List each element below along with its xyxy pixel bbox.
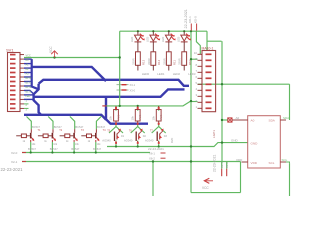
supply VCC arrow top — [49, 46, 58, 58]
svg-text:22-23-2021: 22-23-2021 — [1, 167, 24, 172]
pin CN-8 — [198, 65, 203, 67]
wire bus A line1 — [32, 67, 106, 81]
net stub X1-1 — [220, 162, 224, 177]
wire bus S trunk — [34, 84, 42, 115]
pad SV1-9 — [10, 89, 16, 91]
wire pin stub 3 — [24, 63, 32, 65]
wire feed vertical — [119, 31, 121, 106]
wire pin9 tap — [191, 58, 198, 60]
pin CN-9 — [198, 59, 203, 61]
wire top jog — [207, 40, 222, 42]
wire resistor stub 2 — [137, 106, 139, 111]
svg-text:22-23-2021: 22-23-2021 — [148, 147, 164, 151]
wire pin stub 4 — [24, 67, 32, 69]
pad CN-8 — [206, 65, 212, 67]
pad CN-2 — [206, 101, 212, 103]
resistor R12 — [147, 52, 165, 76]
pin SV1-10 — [20, 94, 24, 96]
svg-text:BLT2: BLT2 — [26, 86, 32, 89]
wire X1-1 drop — [221, 162, 223, 169]
svg-text:LED1: LED1 — [157, 72, 165, 76]
pad SV1-13 — [10, 107, 16, 109]
pin CN-7 — [198, 71, 203, 73]
svg-text:VCC: VCC — [26, 55, 31, 58]
wire collector riser T2 — [48, 117, 53, 130]
node x2-0 j3 — [73, 151, 75, 153]
svg-text:LED2: LED2 — [173, 72, 181, 76]
svg-text:X2-0: X2-0 — [11, 151, 18, 155]
node x2-1 cross — [190, 160, 192, 162]
wire pin stub 5 — [24, 72, 32, 74]
node VCC arrow junction — [53, 56, 55, 58]
svg-text:SV1: SV1 — [6, 48, 14, 53]
wire right vertical net — [221, 41, 223, 161]
IC U1 body — [248, 116, 281, 168]
wire GND rail — [107, 143, 248, 147]
wire gate stub 1 — [115, 124, 117, 127]
pin SV1-9 — [20, 89, 24, 91]
svg-text:R23: R23 — [159, 114, 163, 119]
svg-text:AO340: AO340 — [102, 139, 111, 143]
wire SDA vertical — [289, 84, 291, 120]
svg-text:LED: LED — [177, 37, 181, 42]
svg-text:BC547: BC547 — [28, 147, 36, 151]
svg-text:22-23-2021: 22-23-2021 — [213, 155, 217, 172]
wire base rail mid — [107, 101, 192, 106]
node gnd j3 — [158, 145, 160, 147]
pad CN-4 — [206, 89, 212, 91]
svg-text:A0: A0 — [236, 116, 240, 120]
wire collector riser T1 — [27, 117, 32, 130]
connector CN body — [202, 51, 216, 112]
pad SV1-4 — [10, 67, 16, 69]
IC pin A0 — [243, 119, 248, 121]
svg-text:VCC: VCC — [202, 186, 209, 190]
wire pin2 tap — [191, 101, 198, 103]
svg-text:AO340: AO340 — [145, 139, 154, 143]
pin SV1-13 — [20, 107, 24, 109]
svg-text:X6-1: X6-1 — [149, 151, 155, 155]
wire bus A line2 — [39, 80, 189, 86]
net stub X3-1 — [117, 83, 136, 87]
wire bus B middle horizontal — [34, 89, 185, 96]
svg-text:10k: 10k — [109, 115, 113, 120]
pad SV1-1 — [10, 54, 16, 56]
svg-text:BC547: BC547 — [50, 147, 58, 151]
pad SV1-12 — [10, 103, 16, 105]
transistor unit T3 — [60, 125, 85, 151]
svg-text:R22: R22 — [138, 114, 142, 119]
pad CN-5 — [206, 83, 212, 85]
node LED rail j4 — [183, 30, 185, 32]
pin CN-5 — [198, 83, 203, 85]
svg-text:SCL: SCL — [282, 158, 288, 162]
pin CN-3 — [198, 95, 203, 97]
net stub X6-2 — [149, 157, 166, 161]
transistor unit T4 — [81, 125, 106, 151]
svg-text:A0: A0 — [251, 118, 255, 122]
node vcc tap — [190, 100, 192, 102]
LED LED1 — [146, 31, 161, 52]
node gnd j4 — [190, 145, 192, 147]
svg-text:10: 10 — [194, 51, 198, 55]
pad SV1-5 — [10, 72, 16, 74]
svg-text:BLT1: BLT1 — [26, 82, 32, 85]
wire collector riser T4 — [96, 116, 101, 129]
net flag X2-0 — [11, 151, 26, 155]
wire resistor stub 1 — [115, 106, 117, 111]
node base rail j2 — [137, 105, 139, 107]
net flag X2-1 — [11, 160, 26, 164]
node a0 tap — [221, 119, 223, 121]
supply VCC arrow bottom — [202, 178, 213, 190]
wire A0 link — [222, 119, 228, 121]
svg-text:330R: 330R — [162, 58, 166, 65]
svg-text:330R: 330R — [131, 58, 135, 65]
wire SCL vertical — [289, 163, 291, 196]
jumper A0 box — [228, 118, 243, 122]
wire X1-2 drop — [226, 162, 228, 169]
IC pin VDD — [242, 161, 248, 163]
node x2-0 j1 — [30, 151, 32, 153]
svg-text:KD-1: KD-1 — [188, 16, 192, 23]
wire gate link 1 — [109, 127, 123, 134]
svg-text:SCL: SCL — [269, 161, 275, 165]
wire pin13 stub — [24, 107, 29, 109]
pin SV1-3 — [20, 63, 24, 65]
svg-text:BC547: BC547 — [54, 125, 62, 129]
svg-text:VDD: VDD — [251, 161, 258, 165]
pad SV1-8 — [10, 85, 16, 87]
svg-text:LGP1: LGP1 — [212, 130, 216, 138]
resistor R10 — [178, 52, 196, 76]
wire bus C lower-left horizontal — [24, 115, 106, 120]
svg-text:AO340: AO340 — [124, 139, 133, 143]
pad CN-1 — [206, 107, 212, 109]
wire emitter drop T4 — [95, 142, 97, 153]
node base rail j1 — [119, 105, 121, 107]
node LED rail j2 — [152, 30, 154, 32]
pin SV1-11 — [20, 98, 24, 100]
svg-text:R20: R20 — [170, 137, 174, 143]
svg-text:R13: R13 — [142, 59, 146, 65]
pad SV1-10 — [10, 94, 16, 96]
node x2-0 j2 — [51, 151, 53, 153]
svg-text:X2-1: X2-1 — [11, 160, 18, 164]
wire pin stub 9 — [24, 90, 34, 94]
wire bottom VCC link — [191, 192, 241, 194]
wire gate link 3 — [152, 127, 166, 134]
wire VCC rail — [24, 57, 120, 59]
LED LED3 — [177, 31, 192, 52]
pad CN-6 — [206, 77, 212, 79]
pin CN-2 — [198, 101, 203, 103]
wire pin stub 11 — [24, 98, 34, 100]
node LED rail j1 — [137, 30, 139, 32]
wire resistor stub 3 — [158, 106, 160, 111]
wire bus B drop — [106, 97, 148, 124]
pin CN-10 — [198, 53, 203, 55]
pin SV1-12 — [20, 103, 24, 105]
pin SV1-7 — [20, 81, 24, 83]
svg-text:VDD: VDD — [236, 158, 243, 162]
wire mosfet drop 1 — [115, 141, 117, 147]
svg-text:MA10-1: MA10-1 — [202, 47, 214, 51]
node gnd ic junction — [221, 141, 223, 143]
svg-text:BC547: BC547 — [75, 125, 83, 129]
wire pin stub 6 — [24, 76, 32, 78]
resistor R13 — [131, 52, 149, 76]
svg-text:BLT0: BLT0 — [26, 77, 32, 80]
pad SV1-11 — [10, 98, 16, 100]
svg-text:10k: 10k — [130, 115, 134, 120]
wire emitter drop T3 — [73, 142, 75, 153]
resistor R21 — [109, 106, 121, 125]
resistor R22 — [130, 106, 142, 125]
node gnd j1 — [115, 145, 117, 147]
svg-text:R11: R11 — [172, 60, 176, 65]
pin CN-4 — [198, 89, 203, 91]
net stub X6-1 — [149, 151, 166, 155]
svg-text:R12: R12 — [157, 59, 161, 65]
wire rail to connector drop — [206, 31, 208, 50]
svg-text:LED: LED — [161, 37, 165, 42]
LED LED2 — [161, 31, 176, 52]
wire rail X2-1 — [22, 161, 241, 163]
pin SV1-8 — [20, 85, 24, 87]
pad SV1-3 — [10, 63, 16, 65]
node gnd j2 — [137, 145, 139, 147]
svg-text:SDA: SDA — [269, 118, 276, 122]
svg-text:R10: R10 — [188, 59, 192, 65]
wire emitter drop T1 — [30, 142, 32, 153]
IC pin SDA — [280, 119, 286, 121]
pad CN-7 — [206, 71, 212, 73]
net stub KD-0 — [196, 24, 198, 31]
pad CN-9 — [206, 59, 212, 61]
transistor Q5 — [102, 129, 125, 144]
svg-text:LED: LED — [146, 37, 150, 42]
wire SCL link — [286, 162, 290, 163]
svg-text:X6-2: X6-2 — [149, 157, 155, 161]
node LED rail j3 — [168, 30, 170, 32]
svg-text:VCC: VCC — [49, 46, 53, 53]
svg-text:LED: LED — [26, 95, 31, 98]
node pin9 tap — [190, 58, 192, 60]
svg-text:SDA: SDA — [283, 116, 289, 120]
resistor R11 — [162, 52, 180, 76]
svg-text:BLT3: BLT3 — [26, 91, 32, 94]
wire pin stub 7 — [24, 81, 32, 83]
wire KD-1 vertical — [190, 31, 192, 192]
svg-text:KD-0: KD-0 — [194, 16, 198, 23]
resistor R23 — [151, 106, 163, 125]
pad CN-10 — [206, 53, 212, 55]
transistor unit T1 — [16, 125, 41, 151]
net stub KD-1 — [190, 24, 192, 31]
wire mosfet drop 2 — [137, 141, 139, 147]
wire gate stub 3 — [158, 124, 160, 127]
transistor unit T2 — [38, 125, 63, 151]
pad SV1-6 — [10, 76, 16, 78]
wire gate link 2 — [131, 127, 145, 134]
wire gate stub 2 — [137, 124, 139, 127]
svg-text:R21: R21 — [117, 114, 121, 119]
wire X6 drop — [152, 162, 154, 197]
svg-text:BC547: BC547 — [32, 125, 40, 129]
connector SV1 body — [8, 53, 21, 112]
net stub X1-2 — [225, 162, 229, 177]
wire VDD riser — [240, 162, 242, 193]
node sda cross — [221, 83, 223, 85]
pin SV1-6 — [20, 76, 24, 78]
svg-text:BC547: BC547 — [71, 147, 79, 151]
svg-text:LED: LED — [130, 37, 134, 42]
wire pin stub 2 — [24, 58, 32, 60]
node x6 drop junction — [152, 160, 154, 162]
svg-text:GND: GND — [251, 141, 259, 145]
svg-text:BC547: BC547 — [93, 147, 101, 151]
svg-text:330R: 330R — [178, 58, 182, 65]
pad SV1-7 — [10, 81, 16, 83]
wire collector riser T3 — [70, 117, 75, 130]
pin SV1-5 — [20, 72, 24, 74]
wire pin stub 8 — [24, 85, 32, 87]
net stub mid rail end — [102, 105, 106, 107]
svg-text:X1-2: X1-2 — [225, 162, 229, 168]
wire bus pin-merge vertical — [32, 59, 39, 89]
svg-text:BC547: BC547 — [97, 125, 105, 129]
svg-text:10k: 10k — [151, 115, 155, 120]
pin SV1-4 — [20, 67, 24, 69]
svg-text:330R: 330R — [147, 58, 151, 65]
wire pin12 stub — [24, 103, 29, 105]
node KD-1 rail junction — [190, 30, 192, 32]
node vcc feed T — [119, 56, 121, 58]
net stub X3-0 — [117, 88, 136, 92]
wire emitter drop T2 — [51, 142, 53, 153]
IC pin SCL — [280, 161, 286, 163]
wire SDA horizontal — [198, 83, 290, 85]
pin CN-1 — [198, 107, 203, 109]
svg-text:X1-1: X1-1 — [220, 162, 224, 168]
svg-text:GND: GND — [231, 139, 239, 143]
LED LED0 — [130, 31, 145, 52]
pin SV1-1 — [20, 54, 24, 56]
pin CN-6 — [198, 77, 203, 79]
svg-text:X3-1: X3-1 — [130, 83, 136, 87]
pin SV1-2 — [20, 58, 24, 60]
wire pin stub 10 — [24, 94, 34, 96]
wire KD-0 vertical — [196, 31, 200, 54]
pad SV1-2 — [10, 58, 16, 60]
wire LED anode rail — [120, 30, 207, 32]
wire mosfet drop 3 — [158, 141, 160, 147]
wire emitter rail X2-0 — [22, 152, 150, 154]
svg-text:X3-0: X3-0 — [130, 88, 136, 92]
pad CN-3 — [206, 95, 212, 97]
node x2-0 j4 — [95, 151, 97, 153]
transistor Q7 — [145, 129, 168, 144]
svg-text:LED0: LED0 — [142, 72, 150, 76]
transistor Q6 — [124, 129, 147, 144]
